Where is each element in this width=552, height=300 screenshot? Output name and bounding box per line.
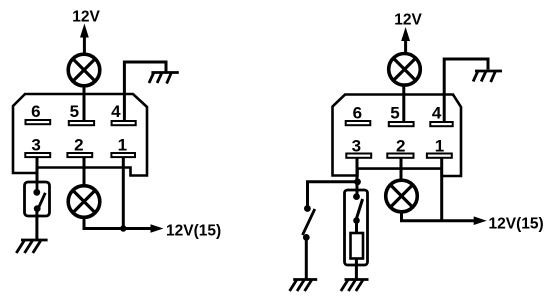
- thermal switch + resistor unit housing (right): [345, 190, 368, 265]
- pin 2 (left): [67, 153, 92, 157]
- chassis ground (right top): [473, 71, 502, 82]
- wire lamp L4 to 12V(15) rail (right): [402, 212, 476, 221]
- lamp L2 (left, below pin 2): [68, 186, 100, 218]
- wire switch S2 to ground (right): [305, 238, 308, 280]
- svg-text:4: 4: [111, 102, 121, 121]
- wire pin 4 to chassis ground (right): [444, 59, 488, 122]
- svg-text:12V: 12V: [394, 12, 422, 29]
- junction dot (right, pin 3 node): [354, 178, 361, 185]
- wire into unit housing: [356, 190, 359, 195]
- svg-text:2: 2: [74, 136, 83, 155]
- pin 6 (right): [346, 121, 371, 125]
- contact dot top (unit): [353, 193, 360, 200]
- svg-text:5: 5: [390, 104, 399, 123]
- svg-text:4: 4: [432, 104, 442, 123]
- wire switch S1 to ground (left): [35, 209, 38, 240]
- resistor R1 (inside unit): [351, 233, 364, 259]
- svg-text:3: 3: [31, 136, 40, 155]
- switch S2 (right, open switch): [303, 205, 315, 241]
- svg-text:12V: 12V: [72, 9, 100, 26]
- pin 4 (left): [112, 121, 136, 125]
- arrow to 12V(15) (left): [151, 224, 164, 233]
- pin 6 (left): [26, 120, 51, 124]
- pin 3 (left): [25, 153, 50, 157]
- wire node to switch S2 (right): [308, 182, 357, 206]
- svg-text:12V(15): 12V(15): [489, 216, 544, 233]
- wire pin 2 to lamp L2 (left): [83, 158, 86, 187]
- ground (below switch S2): [290, 280, 318, 292]
- wire lamp L3 to pin 5 (right): [402, 85, 405, 123]
- svg-text:5: 5: [70, 102, 79, 121]
- junction dot (left): [120, 225, 126, 231]
- svg-text:1: 1: [118, 136, 127, 155]
- wire pin 3 down (right): [356, 158, 359, 195]
- wire lamp L2 to 12V(15) rail (left): [84, 217, 153, 229]
- wire resistor R1 to ground: [355, 259, 358, 280]
- svg-text:6: 6: [31, 102, 40, 121]
- pin 5 (right): [389, 122, 414, 126]
- switch lever (unit): [356, 199, 363, 220]
- pin 3 (right): [346, 154, 371, 158]
- wire contact to resistor R1: [355, 221, 358, 234]
- arrow to 12V(15) (right): [474, 216, 487, 225]
- switch S1 in housing (left): [25, 182, 50, 216]
- lamp L4 (right, below pin 2): [386, 180, 418, 212]
- pin 2 (right): [387, 154, 413, 158]
- wire lamp L1 to pin 5 (left): [83, 86, 86, 121]
- connector block outline (right): [333, 95, 462, 177]
- wire pin 2 to lamp L4 (right): [400, 158, 403, 181]
- connector block outline (left): [13, 94, 147, 176]
- wire pin 1 down to rail (left): [122, 158, 125, 229]
- svg-text:6: 6: [353, 104, 362, 123]
- ground (left bottom): [16, 240, 47, 253]
- lamp L1 (indicator lamp above connector, left): [68, 54, 100, 86]
- contact dot middle (unit): [353, 217, 360, 224]
- svg-text:12V(15): 12V(15): [166, 222, 221, 239]
- wire pin 4 to chassis ground (left): [124, 62, 166, 121]
- chassis ground (left top): [149, 73, 179, 84]
- wire pin 1 down to rail (right): [440, 158, 443, 221]
- arrow 12V supply (right): [404, 39, 407, 54]
- pin 1 (left): [111, 153, 135, 157]
- lamp L3 (indicator lamp above connector, right): [389, 54, 421, 86]
- pin 4 (right): [430, 122, 452, 126]
- pin 1 (right): [427, 154, 452, 158]
- ground (below resistor unit): [341, 280, 369, 292]
- wire pin 3 to switch S1 (left): [36, 158, 39, 193]
- arrow 12V supply (left): [83, 36, 86, 54]
- pin 5 (left): [69, 121, 94, 125]
